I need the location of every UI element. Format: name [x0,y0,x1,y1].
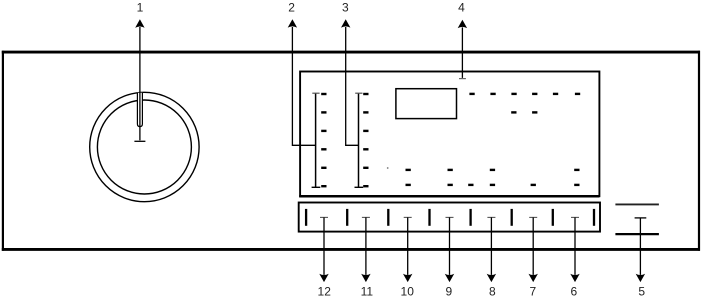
display window [396,89,457,119]
indicator dash row 6 [406,184,580,186]
program knob inner ring [97,100,191,194]
svg-text:2: 2 [288,0,295,14]
small dot marker [387,167,389,169]
button strip box [299,203,600,232]
svg-text:5: 5 [638,285,645,297]
svg-text:3: 3 [342,0,349,14]
leader line 5 (to handle) [635,217,647,219]
program knob outer ring [90,92,199,201]
buttons [306,209,594,226]
leader line 4 (to panel top) [461,27,463,78]
svg-text:12: 12 [318,285,332,297]
option bar 2 tick dashes [363,93,368,188]
svg-text:8: 8 [489,285,496,297]
svg-text:9: 9 [446,285,453,297]
svg-text:7: 7 [529,285,536,297]
knob pointer slot [137,93,142,127]
handle lower line [615,233,659,235]
leader line 10 (to button strip) [404,216,412,218]
option scale bar 1 [312,93,321,187]
svg-text:1: 1 [137,0,144,14]
handle upper line [615,203,659,205]
control panel box [300,72,599,197]
leader line 7 (to button strip) [529,216,537,218]
option bar 1 tick dashes [321,93,326,188]
indicator dash row 1 [469,93,580,95]
leader line 9 (to button strip) [446,216,454,218]
svg-text:10: 10 [401,285,415,297]
indicator dash row 5 [406,169,580,171]
leader line 3 (to option bar 2) [346,27,359,145]
option scale bar 2 [355,93,364,187]
appliance front panel outline [2,51,700,54]
leader line 2 (to option bar 1) [292,27,315,145]
panel bottom edge [299,195,599,198]
svg-text:6: 6 [570,285,577,297]
leader line 1 (to knob) [139,27,141,140]
svg-text:11: 11 [361,285,374,297]
indicator dash row 2 [511,111,537,113]
leader line 8 (to button strip) [487,216,495,218]
svg-text:4: 4 [458,0,465,14]
leader line 11 (to button strip) [362,216,370,218]
leader line 6 (to button strip) [571,216,579,218]
leader line 12 (to button strip) [320,216,328,218]
